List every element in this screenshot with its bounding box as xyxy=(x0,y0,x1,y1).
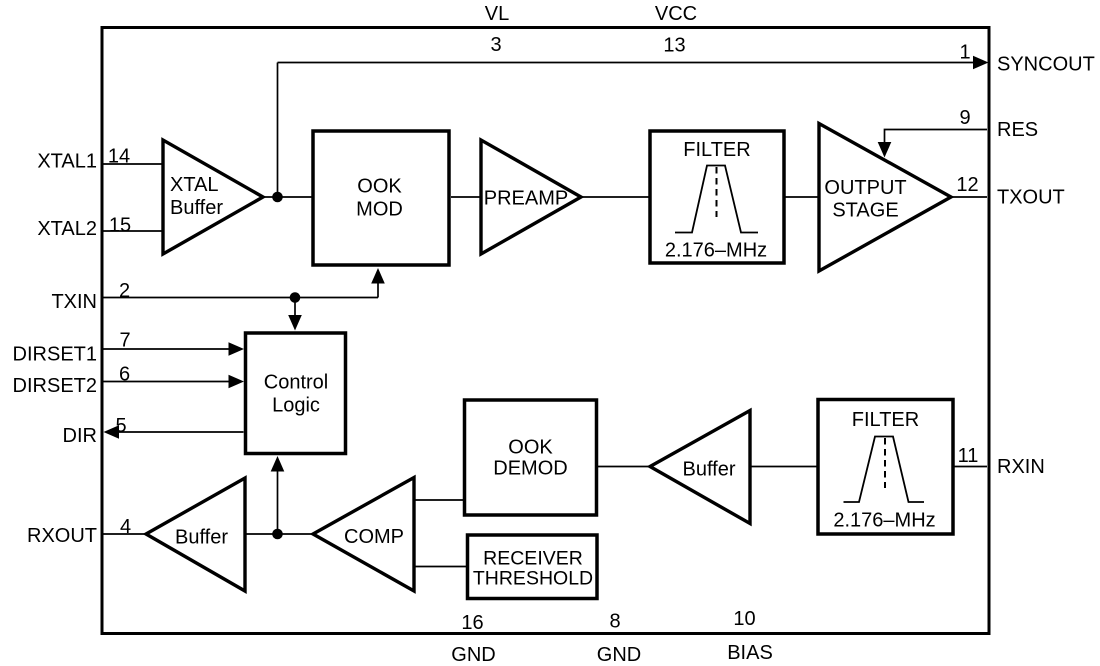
value label 2.176-MHz (TX filter) xyxy=(665,240,767,262)
wire XTAL2 xyxy=(103,230,163,232)
pin 1 number xyxy=(959,42,970,64)
arrow DIRSET1 into Control Logic xyxy=(229,342,245,356)
svg-text:OOK: OOK xyxy=(357,176,402,198)
svg-text:RES: RES xyxy=(997,119,1038,141)
svg-text:RECEIVER: RECEIVER xyxy=(483,548,583,570)
arrow into Control Logic bottom xyxy=(271,456,285,472)
wire RXIN xyxy=(953,466,987,468)
pin 5 number xyxy=(115,415,126,437)
svg-text:VCC: VCC xyxy=(655,3,697,25)
pin VCC label xyxy=(655,3,697,25)
svg-text:XTAL: XTAL xyxy=(170,174,219,196)
pin GND label (8) xyxy=(597,644,641,666)
wire RES xyxy=(885,130,988,145)
wire riser from XTAL buffer output to SYNCOUT line xyxy=(277,63,279,198)
svg-text:Buffer: Buffer xyxy=(683,459,736,481)
block OOK MOD xyxy=(313,131,449,265)
wire OOK MOD to PREAMP xyxy=(451,196,481,198)
pin 7 number xyxy=(119,330,130,352)
arrow into Control Logic top xyxy=(288,315,302,331)
svg-text:THRESHOLD: THRESHOLD xyxy=(473,568,593,590)
block OOK DEMOD xyxy=(465,400,597,515)
pin DIRSET2 label xyxy=(13,375,97,397)
wire DIRSET2 xyxy=(103,381,230,383)
comparator U5 COMP xyxy=(313,478,414,592)
junction dot TXIN node xyxy=(290,292,301,303)
pin 10 number xyxy=(733,608,755,630)
svg-text:DIR: DIR xyxy=(63,425,97,447)
wire TXIN horizontal xyxy=(103,297,378,299)
pin XTAL1 label xyxy=(37,151,97,173)
pin XTAL2 label xyxy=(37,218,97,240)
svg-text:OUTPUT: OUTPUT xyxy=(824,177,906,199)
arrow DIR out to pin xyxy=(104,425,120,439)
wire PREAMP to FILTER xyxy=(581,196,650,198)
svg-text:STAGE: STAGE xyxy=(832,200,898,222)
svg-text:10: 10 xyxy=(733,608,755,630)
wire DIRSET1 xyxy=(103,348,230,350)
wire SYNCOUT horizontal xyxy=(278,62,976,64)
dashed center-frequency line (RX filter) xyxy=(884,438,886,488)
svg-text:DEMOD: DEMOD xyxy=(493,458,567,480)
chip boundary xyxy=(102,28,989,634)
amplifier U3 OUTPUT STAGE xyxy=(819,124,951,272)
wire TXOUT xyxy=(951,196,987,198)
svg-text:COMP: COMP xyxy=(344,526,404,548)
svg-text:RXOUT: RXOUT xyxy=(27,525,97,547)
pin DIRSET1 label xyxy=(13,344,97,366)
svg-text:VL: VL xyxy=(485,3,509,25)
svg-text:2.176–MHz: 2.176–MHz xyxy=(833,510,935,532)
pin 12 number xyxy=(956,174,978,196)
svg-text:SYNCOUT: SYNCOUT xyxy=(997,54,1095,76)
svg-text:GND: GND xyxy=(597,644,641,666)
block FILTER (RX) xyxy=(818,400,953,535)
pin 11 number xyxy=(958,445,979,467)
buffer U6 RX Buffer xyxy=(650,411,750,524)
dashed center-frequency line (TX filter) xyxy=(716,167,718,217)
svg-text:FILTER: FILTER xyxy=(852,409,919,431)
wire DIR xyxy=(117,431,244,433)
svg-text:Control: Control xyxy=(264,372,328,394)
svg-text:15: 15 xyxy=(109,215,131,237)
bandpass response symbol (TX filter) xyxy=(675,166,758,233)
svg-text:9: 9 xyxy=(959,107,970,129)
svg-text:FILTER: FILTER xyxy=(683,139,750,161)
pin 16 number xyxy=(461,612,483,634)
block Control Logic xyxy=(246,333,346,454)
pin 2 number xyxy=(119,280,130,302)
pin 6 number xyxy=(119,364,130,386)
value label 2.176-MHz (RX filter) xyxy=(833,510,935,532)
svg-text:11: 11 xyxy=(958,445,979,467)
pin 8 number xyxy=(609,611,620,633)
svg-text:3: 3 xyxy=(490,34,501,56)
pin BIAS label xyxy=(727,642,773,664)
svg-text:1: 1 xyxy=(959,42,970,64)
pin 15 number xyxy=(109,215,131,237)
pin VL label xyxy=(485,3,509,25)
wire FILTER to OUTPUT STAGE xyxy=(784,196,820,198)
pin TXIN label xyxy=(51,291,97,313)
svg-text:12: 12 xyxy=(956,174,978,196)
wire RECEIVER THRESHOLD to COMP xyxy=(414,566,467,568)
svg-text:13: 13 xyxy=(663,35,685,57)
svg-text:TXIN: TXIN xyxy=(51,291,97,313)
buffer U1 XTAL Buffer xyxy=(163,140,263,254)
pin SYNCOUT label xyxy=(997,54,1095,76)
wire TXIN drop to Control Logic xyxy=(294,298,296,318)
svg-text:GND: GND xyxy=(451,644,495,666)
svg-text:XTAL2: XTAL2 xyxy=(37,218,97,240)
wire Buffer to OOK DEMOD xyxy=(597,466,650,468)
pin RES label xyxy=(997,119,1038,141)
wire OOK DEMOD to COMP xyxy=(414,499,464,501)
arrow into OOK MOD bottom xyxy=(371,268,385,284)
block RECEIVER THRESHOLD xyxy=(468,535,598,599)
pin GND label (16) xyxy=(451,644,495,666)
pin RXOUT label xyxy=(27,525,97,547)
pin 14 number xyxy=(108,146,130,168)
svg-text:DIRSET2: DIRSET2 xyxy=(13,375,97,397)
pin 9 number xyxy=(959,107,970,129)
pin RXIN label xyxy=(997,456,1045,478)
svg-text:TXOUT: TXOUT xyxy=(997,187,1065,209)
pin 4 number xyxy=(120,516,131,538)
wire riser RX node to Control Logic xyxy=(277,470,279,534)
svg-text:Logic: Logic xyxy=(272,395,320,417)
svg-text:DIRSET1: DIRSET1 xyxy=(13,344,97,366)
buffer U4 RX output Buffer xyxy=(146,478,245,591)
bandpass response symbol (RX filter) xyxy=(844,437,925,503)
arrow RES into OUTPUT STAGE xyxy=(878,142,892,158)
svg-text:BIAS: BIAS xyxy=(727,642,773,664)
arrow DIRSET2 into Control Logic xyxy=(229,375,245,389)
wire RXOUT xyxy=(103,533,146,535)
svg-text:16: 16 xyxy=(461,612,483,634)
pin 13 number xyxy=(663,35,685,57)
wire XTAL1 xyxy=(103,163,163,165)
pin DIR label xyxy=(63,425,97,447)
svg-text:XTAL1: XTAL1 xyxy=(37,151,97,173)
pin 3 number xyxy=(490,34,501,56)
svg-text:2.176–MHz: 2.176–MHz xyxy=(665,240,767,262)
junction dot RX node xyxy=(272,529,283,540)
svg-text:8: 8 xyxy=(609,611,620,633)
pin TXOUT label xyxy=(997,187,1065,209)
svg-text:RXIN: RXIN xyxy=(997,456,1045,478)
wire TXIN riser to OOK MOD xyxy=(377,282,379,298)
wire Buffer to COMP xyxy=(245,533,313,535)
svg-text:2: 2 xyxy=(119,280,130,302)
svg-text:OOK: OOK xyxy=(508,437,553,459)
junction dot XTAL buffer output node xyxy=(272,192,283,203)
svg-text:MOD: MOD xyxy=(356,199,403,221)
block FILTER (TX) xyxy=(650,131,784,263)
svg-text:Buffer: Buffer xyxy=(170,197,223,219)
buffer U2 PREAMP xyxy=(481,140,581,254)
svg-text:Buffer: Buffer xyxy=(175,527,228,549)
arrow into SYNCOUT pin xyxy=(973,56,989,70)
svg-text:PREAMP: PREAMP xyxy=(484,188,568,210)
wire FILTER to Buffer xyxy=(750,466,818,468)
wire XTAL buffer output xyxy=(263,196,313,198)
